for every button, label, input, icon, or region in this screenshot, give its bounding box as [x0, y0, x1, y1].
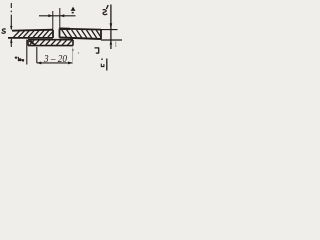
right plate hatch — [62, 30, 101, 39]
left dim arrows — [10, 26, 12, 31]
dark clump on backing left — [29, 41, 35, 45]
tiny bottom-right glyphs — [101, 58, 103, 60]
label s1 (rotated, top right) — [106, 5, 108, 9]
small glyph below right plate — [95, 47, 100, 53]
gap dimension line — [39, 15, 76, 17]
gap dimension extension lines — [53, 8, 60, 29]
bottom dimension extension lines — [26, 40, 28, 65]
stray dots — [72, 49, 74, 51]
tiny bottom-left glyphs — [15, 57, 18, 59]
gap value glyph — [71, 7, 76, 11]
left plate hatch — [14, 30, 53, 37]
right thickness dimension — [101, 29, 118, 31]
bottom dimension line — [37, 62, 73, 64]
label s (left) — [1, 29, 5, 33]
svg-text:3 – 20: 3 – 20 — [43, 53, 67, 65]
right plate outline — [60, 29, 102, 40]
faint tick right — [115, 42, 117, 48]
backing strip hatch — [30, 40, 73, 45]
left thickness dimension line (dash-dot above) — [10, 3, 12, 29]
backing strip outline — [28, 40, 73, 46]
bottom arrows — [37, 62, 42, 65]
gap arrows — [48, 14, 53, 17]
left plate outline — [8, 30, 53, 38]
